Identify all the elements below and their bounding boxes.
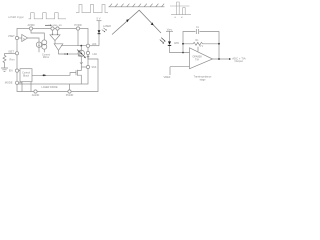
svg-text:stage: stage	[200, 78, 207, 81]
svg-text:Output: Output	[235, 59, 244, 63]
svg-text:AVDD: AVDD	[27, 23, 34, 27]
svg-text:Mirror: Mirror	[43, 56, 49, 59]
svg-text:PVDD: PVDD	[74, 23, 81, 27]
svg-text:5 V: 5 V	[200, 45, 204, 48]
svg-text:LASER trigger: LASER trigger	[8, 16, 24, 19]
svg-text:APD: APD	[174, 42, 179, 45]
svg-text:LASER: LASER	[103, 25, 111, 28]
svg-text:VREF: VREF	[164, 75, 171, 79]
svg-text:LS_EN: LS_EN	[55, 25, 62, 27]
svg-text:LASER DIODE: LASER DIODE	[42, 86, 58, 89]
svg-text:AGND: AGND	[32, 93, 40, 97]
svg-text:SNS: SNS	[92, 67, 97, 69]
svg-text:Block: Block	[23, 75, 30, 78]
svg-text:ISET: ISET	[8, 49, 14, 53]
svg-text:TIA: TIA	[195, 58, 199, 61]
svg-text:MODE: MODE	[5, 81, 13, 85]
svg-text:5 V: 5 V	[97, 17, 101, 21]
svg-text:PGND: PGND	[66, 93, 74, 97]
svg-text:VSET: VSET	[8, 34, 15, 38]
svg-text:LDK: LDK	[92, 44, 97, 46]
svg-text:LDA: LDA	[93, 53, 98, 56]
svg-text:EN: EN	[9, 69, 13, 73]
